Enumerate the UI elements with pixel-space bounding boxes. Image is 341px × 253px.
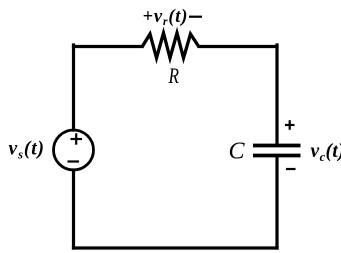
svg-text:+vr(t): +vr(t) <box>143 7 189 28</box>
svg-text:vc(t): vc(t) <box>311 141 341 164</box>
svg-text:vs(t): vs(t) <box>9 139 45 162</box>
svg-text:R: R <box>168 63 180 88</box>
svg-text:C: C <box>229 139 246 165</box>
